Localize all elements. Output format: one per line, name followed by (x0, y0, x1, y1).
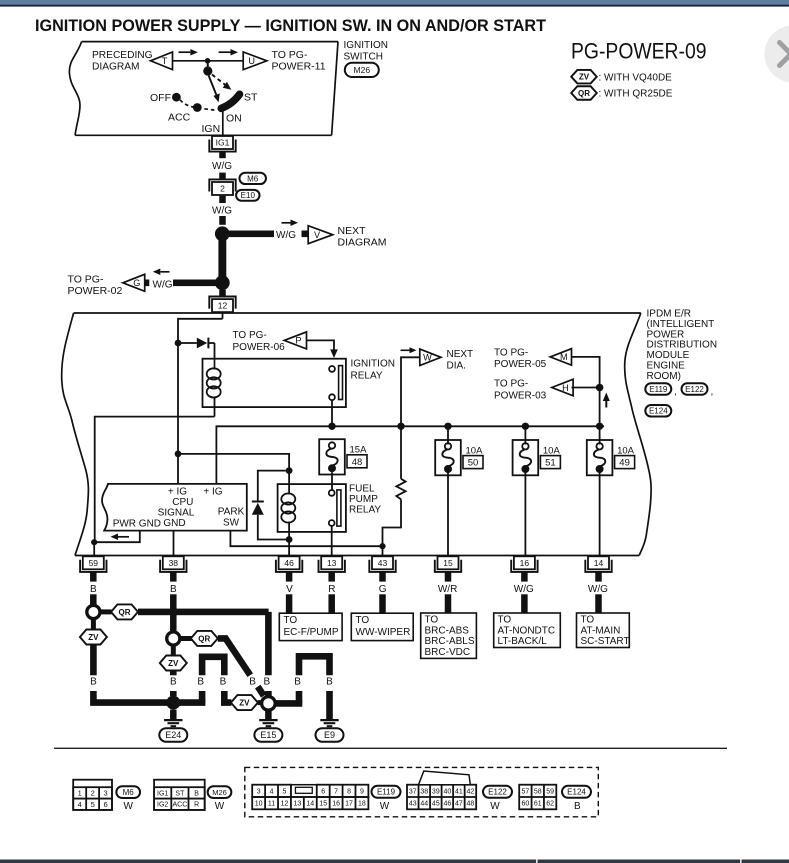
svg-text:G: G (133, 278, 140, 288)
svg-text:TO PG-: TO PG- (494, 379, 528, 390)
svg-text:TO PG-: TO PG- (272, 49, 308, 61)
inline connector 2 (M6/E10) (212, 182, 233, 195)
ignition switch component box M26 (82, 41, 338, 43)
svg-text:43: 43 (409, 801, 417, 808)
connector face M26 pin grid (154, 780, 205, 810)
svg-text:E122: E122 (685, 385, 704, 394)
svg-text:R: R (328, 584, 335, 595)
svg-text:AT-NONDTC: AT-NONDTC (498, 625, 556, 636)
terminal 16 connector on IPDM (514, 556, 535, 569)
svg-text:TO: TO (581, 615, 595, 626)
svg-text:43: 43 (378, 558, 388, 568)
svg-text:PG-POWER-09: PG-POWER-09 (571, 39, 707, 64)
junction node M/H riser (596, 384, 604, 392)
fuse 10A #49 (587, 440, 613, 475)
svg-text:B: B (294, 677, 301, 688)
connector oval E124 footer (562, 786, 591, 798)
connector E122 keyway trapezoid (419, 771, 471, 785)
triangle connector M (to PG-POWER-05) (550, 349, 571, 366)
svg-text:49: 49 (619, 458, 630, 469)
terminal 14 connector on IPDM (588, 556, 609, 569)
svg-text:14: 14 (306, 801, 314, 808)
svg-text:ZV: ZV (168, 659, 179, 668)
svg-text:IG1: IG1 (157, 790, 168, 797)
svg-text:W: W (423, 353, 432, 363)
svg-text:ACC: ACC (168, 112, 191, 124)
svg-text:17: 17 (345, 801, 353, 808)
svg-text:DIAGRAM: DIAGRAM (338, 237, 387, 249)
svg-text:NEXT: NEXT (447, 349, 474, 360)
fuse 10A #51 (513, 440, 539, 475)
hexagon QR diagonal branch (180, 636, 192, 641)
splice junction circle on 59 wire (87, 605, 100, 618)
wire stub below terminal 14 (595, 572, 602, 581)
svg-text:DIA.: DIA. (447, 361, 466, 372)
svg-text:PUMP: PUMP (349, 494, 378, 505)
fuel pump relay contact (329, 490, 335, 496)
svg-text:40: 40 (443, 788, 451, 795)
svg-text:B: B (220, 677, 227, 688)
svg-text:ON: ON (226, 112, 242, 124)
svg-text:T: T (162, 56, 168, 66)
svg-text:7: 7 (334, 788, 338, 795)
ground wire 59 lower (90, 645, 97, 676)
svg-text:5: 5 (283, 788, 287, 795)
triangle connector V (next diagram) (308, 226, 333, 244)
switch position ACC contact dot (193, 103, 202, 112)
svg-text:2: 2 (220, 184, 225, 194)
wire stub below terminal 13 (328, 572, 335, 581)
svg-text:POWER-03: POWER-03 (494, 390, 547, 401)
svg-text:NEXT: NEXT (338, 225, 367, 237)
svg-text:POWER-11: POWER-11 (272, 61, 326, 73)
svg-text:BRC-VDC: BRC-VDC (425, 647, 471, 658)
svg-text:TO PG-: TO PG- (494, 347, 528, 358)
wire stub to connector 12 (219, 290, 226, 297)
svg-text:W: W (380, 801, 390, 812)
legend hexagon ZV (571, 70, 597, 84)
svg-text:DISTRIBUTION: DISTRIBUTION (647, 340, 718, 351)
flow arrow up on riser (605, 401, 607, 408)
triangle connector H (to PG-POWER-03) (552, 379, 573, 396)
next-page chevron button (765, 26, 789, 83)
svg-text:POWER: POWER (647, 329, 685, 340)
svg-text:(INTELLIGENT: (INTELLIGENT (647, 319, 715, 330)
wire H to riser (572, 387, 600, 389)
svg-text:: WITH VQ40DE: : WITH VQ40DE (599, 72, 673, 83)
svg-text:M6: M6 (247, 174, 259, 183)
wire W/G to AT-NONDTC (521, 594, 528, 613)
svg-text:2: 2 (91, 789, 95, 798)
svg-text:CPU: CPU (172, 497, 193, 508)
terminal 38 connector on IPDM (163, 556, 184, 569)
svg-text:60: 60 (521, 801, 529, 808)
svg-text:3: 3 (103, 789, 107, 798)
hexagon QR on ground bus (100, 609, 111, 614)
svg-text:3: 3 (257, 788, 261, 795)
svg-text:B: B (90, 677, 97, 688)
svg-text:B: B (326, 677, 333, 688)
svg-text:15: 15 (443, 558, 453, 568)
wire resistor to park sw node (383, 499, 402, 546)
svg-text:B: B (197, 677, 204, 688)
terminal 12 connector into IPDM (212, 299, 233, 312)
svg-text:ENGINE: ENGINE (647, 361, 686, 372)
svg-text:4: 4 (270, 788, 274, 795)
wire +IG to fuel pump relay coil (178, 454, 289, 471)
wire G to WW-WIPER (379, 594, 386, 613)
svg-text:+ IG: + IG (203, 486, 222, 497)
svg-text:ST: ST (175, 790, 185, 797)
triangle connector P (to PG-POWER-06) (284, 332, 306, 349)
svg-text:G: G (379, 584, 387, 595)
svg-text:14: 14 (594, 558, 604, 568)
ground wire 38 branch (170, 594, 177, 631)
svg-text:TO: TO (425, 615, 439, 626)
svg-text:SW: SW (223, 517, 240, 528)
svg-text:BRC-ABS: BRC-ABS (425, 625, 470, 636)
svg-text:6: 6 (321, 788, 325, 795)
svg-text:W/G: W/G (276, 230, 296, 241)
connector oval E122 footer (483, 786, 512, 798)
svg-text:LT-BACK/L: LT-BACK/L (498, 636, 548, 647)
wire W/G stub above joint connector 2 (219, 173, 226, 180)
terminal 59 connector on IPDM (83, 556, 104, 569)
connector oval M26 footer (208, 786, 232, 798)
svg-text:M: M (560, 352, 568, 362)
ignition relay box (203, 359, 346, 407)
fuel pump relay box (278, 484, 346, 532)
svg-text:SWITCH: SWITCH (344, 52, 383, 63)
ground bus E15 to E9 with bridge jog 2 (275, 700, 302, 707)
junction node to PG-POWER-02 (215, 275, 230, 290)
svg-text:37: 37 (409, 788, 417, 795)
diode D2 park switch (258, 471, 289, 502)
junction node ignition feed (175, 340, 182, 347)
svg-text:44: 44 (420, 801, 428, 808)
connector oval E10 (236, 190, 259, 201)
wire diode to ignition relay coil (214, 343, 216, 359)
svg-text:+ IG: + IG (168, 486, 187, 497)
top blue toolbar bar (0, 0, 789, 5)
svg-text:B: B (170, 584, 177, 595)
svg-text:P: P (295, 336, 301, 346)
svg-text:10: 10 (255, 801, 263, 808)
svg-text:DIAGRAM: DIAGRAM (92, 62, 140, 73)
fuse 10A #50 (435, 440, 461, 475)
junction node coil/diode (286, 467, 293, 474)
svg-text:POWER-02: POWER-02 (68, 285, 123, 297)
wire stub below terminal 16 (521, 572, 528, 581)
svg-text:6: 6 (103, 800, 107, 809)
wire R to EC-F/PUMP (328, 594, 335, 613)
svg-text:AT-MAIN: AT-MAIN (581, 625, 621, 636)
triangle connector G (to PG-POWER-02) (123, 274, 145, 291)
wire to connector 46 (288, 540, 290, 557)
svg-text:W/G: W/G (212, 206, 232, 217)
flow arrow right 2 (219, 51, 231, 53)
svg-text:57: 57 (521, 788, 529, 795)
connector oval E122 (682, 383, 708, 395)
flow arrow right above W/G (282, 222, 291, 224)
destination box TO BRC-ABS/ABLS/VDC (421, 613, 477, 658)
svg-text:59: 59 (89, 558, 99, 568)
splice junction circle E15 (262, 697, 276, 711)
svg-text:16: 16 (520, 558, 530, 568)
wire cpu gnd to connector 38 (173, 531, 175, 556)
wire switch output IGN (222, 110, 224, 137)
switch throw solid arrow to ON (209, 76, 217, 96)
svg-text:E9: E9 (324, 730, 335, 740)
wire fuse 49 to connector 14 (599, 470, 601, 556)
thick vertical wire between junctions (218, 239, 226, 278)
svg-text:FUEL: FUEL (349, 484, 375, 495)
svg-text:IGN: IGN (202, 123, 221, 135)
svg-text:PWR GND: PWR GND (113, 518, 161, 529)
svg-text:OFF: OFF (150, 92, 171, 104)
svg-text:ROOM): ROOM) (647, 371, 681, 382)
svg-text:12: 12 (281, 801, 289, 808)
svg-text:R: R (194, 802, 199, 809)
svg-text:51: 51 (545, 458, 556, 469)
ground wire 59 branch (90, 594, 97, 605)
wire W/G stub below connector 2 (219, 196, 226, 203)
svg-text:ZV: ZV (579, 73, 590, 82)
svg-text:POWER-05: POWER-05 (494, 359, 547, 370)
thick ground bus to E15 (138, 609, 269, 616)
svg-text:11: 11 (268, 801, 275, 808)
svg-text:: WITH QR25DE: : WITH QR25DE (599, 89, 673, 100)
svg-text:GND: GND (163, 518, 185, 529)
svg-text:38: 38 (420, 788, 428, 795)
connector oval E119 footer (372, 786, 401, 798)
svg-text:E15: E15 (260, 730, 276, 740)
wire stub below terminal 38 (170, 572, 177, 581)
svg-text:SIGNAL: SIGNAL (158, 507, 195, 518)
flow arrow left above W/G (160, 271, 169, 273)
flow arrow left pwr gnd (118, 536, 129, 538)
diagonal ground wire to E15 (218, 638, 250, 675)
svg-text:E124: E124 (567, 788, 586, 797)
IPDM E/R component box outline (74, 312, 641, 314)
svg-text:W: W (490, 801, 500, 812)
svg-text:B: B (170, 677, 177, 688)
svg-text:9: 9 (360, 788, 364, 795)
svg-text:E10: E10 (241, 191, 256, 200)
svg-text:59: 59 (546, 788, 554, 795)
svg-text:M26: M26 (212, 788, 227, 797)
svg-text:42: 42 (467, 788, 475, 795)
svg-text:8: 8 (347, 788, 351, 795)
wire stub below terminal 59 (90, 572, 97, 581)
svg-text:M26: M26 (354, 65, 371, 75)
svg-text:61: 61 (534, 801, 542, 808)
svg-text:TO: TO (356, 615, 370, 626)
svg-text:46: 46 (284, 558, 294, 568)
terminal 13 connector on IPDM (321, 556, 342, 569)
svg-text:W: W (123, 801, 133, 812)
switch position contact ST/ON thick arc (221, 94, 239, 108)
svg-text:QR: QR (198, 634, 210, 643)
svg-text:1: 1 (78, 789, 82, 798)
ground symbol E24 (170, 710, 177, 720)
hexagon ZV on 38 ground wire (171, 646, 176, 656)
svg-text:E122: E122 (488, 788, 507, 797)
wire T to U (173, 60, 244, 62)
splice junction circle on 38 wire (167, 632, 180, 645)
svg-text:ACC: ACC (173, 802, 188, 809)
svg-text:QR: QR (578, 89, 590, 98)
connector label M26 oval (345, 63, 379, 77)
svg-text:IG1: IG1 (216, 138, 230, 148)
switch throw dashed arrow to ST (212, 75, 226, 86)
connector face E119 pin grid (264, 797, 266, 809)
svg-text:45: 45 (432, 801, 440, 808)
svg-text:5: 5 (91, 800, 95, 809)
svg-text:ZV: ZV (88, 633, 99, 642)
internal power bus line (216, 426, 604, 484)
bus junction nodes (328, 423, 335, 430)
svg-text:B: B (574, 801, 581, 812)
wire fuse 50 to connector 15 (447, 470, 449, 556)
svg-text:RELAY: RELAY (351, 370, 383, 381)
destination box TO EC-F/PUMP (279, 613, 342, 640)
svg-text:PARK: PARK (218, 506, 245, 517)
legend hexagon QR (571, 86, 597, 100)
svg-text:RELAY: RELAY (349, 505, 381, 516)
wire park sw to node (230, 531, 382, 547)
svg-text:13: 13 (327, 558, 337, 568)
wire W/G to V triangle (229, 231, 275, 238)
wire M to riser (572, 357, 600, 426)
node on switch feed line (205, 58, 211, 64)
svg-text:W/G: W/G (588, 584, 608, 595)
svg-text:41: 41 (455, 788, 463, 795)
terminal 43 connector on IPDM (372, 556, 393, 569)
svg-text:M6: M6 (123, 788, 135, 797)
svg-text:W: W (215, 801, 225, 812)
connector face M6 pin grid (73, 780, 112, 810)
destination box TO WW-WIPER (351, 613, 413, 640)
wire relay contact to bus (331, 400, 333, 426)
svg-text:48: 48 (352, 457, 363, 468)
connector oval E124 (645, 405, 671, 417)
svg-text:58: 58 (534, 788, 542, 795)
svg-text:V: V (286, 584, 293, 595)
wire fuse 48 to fuel pump relay contact (331, 472, 333, 490)
wire segment down to junction (219, 216, 226, 225)
svg-text:SC-START: SC-START (581, 636, 630, 647)
connector oval E119 (645, 383, 671, 395)
ignition relay contact (329, 366, 335, 372)
svg-text:W/G: W/G (514, 584, 534, 595)
fuel pump relay coil (288, 471, 290, 495)
junction node coil return (286, 536, 293, 543)
svg-text:IGNITION: IGNITION (344, 40, 388, 51)
svg-text:WW-WIPER: WW-WIPER (356, 627, 411, 638)
svg-text:V: V (314, 230, 321, 240)
wire W/G to AT-MAIN (595, 594, 602, 613)
triangle connector T (from preceding diagram) (151, 52, 173, 70)
wire fuse 51 to connector 16 (524, 470, 526, 556)
fuse 15A #48 (319, 439, 345, 474)
flow arrow right above W wire (401, 349, 410, 351)
svg-text:47: 47 (455, 801, 463, 808)
wire V to EC-F/PUMP (286, 594, 293, 613)
wire bus to fuse 50 (447, 426, 449, 444)
svg-text:BRC-ABLS: BRC-ABLS (425, 636, 475, 647)
resistor R1 (400, 426, 402, 479)
svg-text:IGNITION: IGNITION (351, 359, 395, 370)
wire pwr gnd (94, 531, 140, 543)
svg-text:B: B (249, 677, 256, 688)
wire node to connector 43 (382, 546, 384, 556)
svg-text:48: 48 (467, 801, 475, 808)
svg-text:E119: E119 (377, 788, 396, 797)
svg-text:B: B (263, 677, 270, 688)
connector oval M6 (239, 173, 266, 184)
ignition switch rotor pivot (207, 61, 209, 67)
connector face E122 pin grid (418, 785, 420, 810)
svg-text:TO PG-: TO PG- (68, 273, 104, 285)
terminal 15 connector on IPDM (438, 556, 459, 569)
connector face E124 pin grid (531, 785, 533, 810)
svg-text:62: 62 (546, 801, 554, 808)
svg-text:E24: E24 (165, 730, 181, 740)
terminal 46 connector on IPDM (279, 556, 300, 569)
svg-text:4: 4 (78, 800, 82, 809)
svg-text:ST: ST (244, 92, 258, 104)
switch position OFF contact dot (172, 93, 181, 102)
svg-text:IGNITION POWER SUPPLY — IGNITI: IGNITION POWER SUPPLY — IGNITION SW. IN … (35, 17, 546, 35)
svg-text:U: U (248, 56, 255, 66)
wire stub below terminal 46 (286, 572, 293, 581)
wire fuel pump relay contact to connector 13 (331, 526, 333, 556)
svg-text:,: , (711, 387, 714, 398)
hexagon ZV near E15 (231, 695, 258, 710)
svg-text:POWER-06: POWER-06 (233, 342, 286, 353)
bottom table header bar (0, 860, 789, 863)
svg-text:12: 12 (218, 301, 228, 311)
wire W/G stub below IG1 (219, 151, 226, 158)
terminal IG1 connector (212, 136, 233, 149)
svg-text:W/G: W/G (153, 279, 173, 290)
svg-text:B: B (194, 790, 199, 797)
connector oval M6 footer (116, 786, 140, 798)
svg-text:IPDM E/R: IPDM E/R (647, 309, 691, 320)
ground wire 38 lower to E24 (170, 671, 177, 676)
destination box TO AT-NONDTC LT-BACK/L (494, 613, 561, 648)
svg-text:38: 38 (169, 558, 179, 568)
triangle connector W (next dia.) (401, 357, 420, 426)
ground symbol E15 (265, 710, 272, 719)
svg-text:TO: TO (498, 615, 512, 626)
svg-text:16: 16 (332, 801, 340, 808)
wire stub below terminal 15 (445, 572, 452, 581)
triangle connector U (to PG-POWER-11) (243, 52, 267, 70)
wire W/G to G triangle (173, 280, 217, 287)
svg-text:15: 15 (319, 801, 327, 808)
svg-text:50: 50 (468, 458, 479, 469)
wire ignition relay coil return to ground (95, 417, 215, 543)
svg-text:QR: QR (119, 608, 131, 617)
ground symbol E9 (320, 719, 338, 721)
diode D1 ignition feed (181, 342, 197, 344)
flow arrow right 1 (179, 51, 191, 53)
dashed detent path OFF-ACC-ON (180, 100, 216, 110)
destination box TO AT-MAIN SC-START (577, 613, 630, 648)
svg-text:E119: E119 (649, 385, 668, 394)
